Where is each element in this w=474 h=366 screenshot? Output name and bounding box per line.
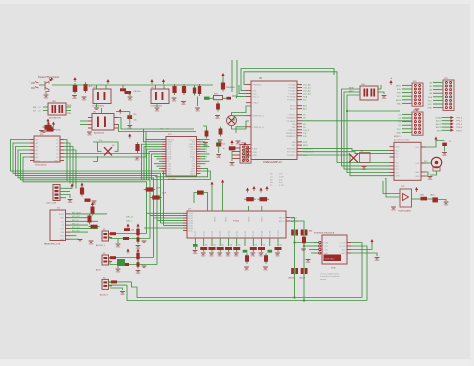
- svg-text:GND: GND: [128, 100, 133, 102]
- svg-text:GND: GND: [234, 256, 239, 258]
- svg-text:PC0/A0: PC0/A0: [289, 84, 297, 87]
- wire: [245, 148, 246, 157]
- svg-text:COM: COM: [324, 243, 329, 245]
- wire: [232, 147, 240, 149]
- crystal Q1: [227, 116, 237, 126]
- capacitor C24: [246, 253, 248, 264]
- wire: [426, 162, 432, 164]
- supply +5V: [231, 142, 233, 145]
- supply +5V arrow: [151, 81, 153, 84]
- ic U7 right pins: [286, 217, 290, 219]
- wire from top: [231, 60, 233, 92]
- svg-text:10k: 10k: [230, 245, 233, 247]
- supply +5V: [211, 184, 213, 187]
- ic IC1 right pins: [60, 139, 64, 141]
- wire: [108, 281, 111, 283]
- svg-text:PB3/MOSI: PB3/MOSI: [286, 133, 296, 135]
- svg-text:GND: GND: [215, 118, 220, 120]
- svg-text:DAC_L: DAC_L: [126, 220, 133, 223]
- wire: [302, 148, 390, 150]
- ground: [428, 177, 433, 178]
- capacitor C4: [45, 129, 56, 131]
- svg-text:ATMEGA328P-AU: ATMEGA328P-AU: [263, 161, 282, 164]
- module U8 right pins: [347, 242, 351, 244]
- resistor R22: [110, 232, 116, 235]
- wire: [108, 233, 147, 235]
- wire: [39, 84, 45, 86]
- wire: [295, 242, 315, 244]
- svg-text:PD6/AIN0: PD6/AIN0: [287, 117, 297, 120]
- wire: [302, 155, 390, 176]
- svg-text:R_OUT: R_OUT: [339, 246, 346, 248]
- svg-text:VDD: VDD: [342, 250, 347, 252]
- svg-text:SCL: SCL: [396, 150, 400, 152]
- wire: [351, 243, 372, 250]
- svg-text:GND: GND: [391, 210, 396, 212]
- mcu U5 left pins: [246, 84, 251, 86]
- wire: [234, 116, 246, 121]
- wire: [378, 92, 384, 94]
- ground: [72, 96, 77, 97]
- svg-text:L_OUT: L_OUT: [339, 243, 346, 245]
- module MOD1 right pins: [421, 146, 426, 148]
- wire: [347, 95, 390, 173]
- svg-text:C10 10u: C10 10u: [133, 91, 141, 93]
- junction: [346, 110, 348, 112]
- svg-text:ADUM1201: ADUM1201: [94, 132, 105, 135]
- pin header JP3: [443, 80, 454, 110]
- svg-text:PWRSTR_B: PWRSTR_B: [253, 116, 265, 118]
- ground: [116, 244, 121, 245]
- wire: [236, 127, 246, 133]
- ground: [236, 141, 241, 142]
- svg-text:10k: 10k: [279, 245, 282, 247]
- wire: [241, 69, 334, 91]
- jumper SJ5: [243, 250, 248, 253]
- ground: [243, 158, 248, 159]
- svg-text:MOSI: MOSI: [349, 87, 354, 89]
- svg-text:AU-OUT_L: AU-OUT_L: [96, 244, 105, 247]
- svg-text:GND3: GND3: [190, 173, 195, 175]
- wire: [344, 92, 390, 169]
- resistor R24: [110, 256, 116, 259]
- resistor R38: [229, 146, 236, 150]
- svg-text:AVL_2: AVL_2: [279, 217, 284, 220]
- svg-text:AU-IN_R: AU-IN_R: [100, 294, 108, 297]
- wire bus L_OUT: [132, 282, 363, 298]
- svg-text:GND: GND: [195, 111, 200, 113]
- svg-text:DCR010505: DCR010505: [93, 106, 105, 108]
- capacitor C22b: [216, 143, 221, 147]
- svg-text:MOSI: MOSI: [396, 100, 402, 102]
- svg-text:10n: 10n: [134, 120, 137, 122]
- svg-text:adaptor: adaptor: [320, 278, 326, 281]
- ground: [195, 108, 200, 109]
- supply +5V: [390, 82, 392, 85]
- wire: [52, 84, 70, 86]
- svg-text:GND: GND: [415, 172, 420, 174]
- capacitor C9: [206, 129, 208, 139]
- ic IC1 left pins: [30, 139, 34, 141]
- ground: [82, 97, 87, 98]
- pin header SV2: [240, 145, 251, 164]
- svg-text:IO4: IO4: [396, 173, 399, 175]
- svg-text:GND: GND: [341, 253, 346, 255]
- svg-text:GND: GND: [244, 270, 249, 272]
- svg-text:VCC: VCC: [428, 104, 433, 106]
- wire: [290, 218, 295, 298]
- wire: [70, 238, 79, 240]
- svg-text:LCD_A3: LCD_A3: [303, 93, 311, 96]
- ground: [155, 108, 160, 109]
- svg-text:MUX: MUX: [437, 130, 442, 132]
- svg-text:GND: GND: [253, 155, 258, 157]
- supply +5V: [71, 186, 73, 189]
- capacitor C31: [137, 142, 139, 153]
- diode pair D4: [301, 230, 304, 236]
- ic U7 left pins: [183, 212, 187, 214]
- svg-text:PT1.4: PT1.4: [457, 127, 463, 129]
- svg-text:GND: GND: [397, 103, 402, 105]
- wire bundle IC1-right: [64, 140, 67, 182]
- svg-text:GND: GND: [428, 179, 433, 181]
- capacitor C28: [137, 251, 139, 262]
- wire: [108, 284, 127, 286]
- wire: [116, 111, 130, 113]
- svg-text:GND: GND: [136, 273, 141, 275]
- supply +5V: [127, 226, 129, 229]
- svg-text:VDD1: VDD1: [225, 216, 227, 222]
- supply +5V: [127, 251, 129, 254]
- resistor R30: [85, 82, 87, 93]
- ground: [42, 131, 47, 132]
- svg-text:A_B7: A_B7: [189, 229, 193, 232]
- svg-text:SOM 4812: SOM 4812: [325, 259, 336, 261]
- ground: [44, 95, 49, 96]
- diode pair D5: [291, 268, 294, 274]
- ground: [444, 202, 449, 203]
- svg-text:10k: 10k: [205, 245, 208, 247]
- wire: [108, 237, 150, 239]
- diode D11: [194, 86, 196, 96]
- resistor R34: [442, 143, 447, 146]
- resistor R35: [421, 197, 428, 201]
- svg-text:GND: GND: [193, 253, 198, 255]
- wire: [244, 72, 390, 163]
- dc-dc converter U4: [151, 89, 169, 104]
- pin header JP2: [412, 83, 423, 106]
- wire bundle IC2-right: [201, 138, 210, 140]
- svg-text:C22: C22: [222, 143, 225, 145]
- wire: [351, 253, 377, 256]
- svg-text:PD7/AIN1: PD7/AIN1: [287, 120, 297, 123]
- wire: [93, 142, 118, 151]
- svg-text:74HC4050D: 74HC4050D: [35, 164, 47, 166]
- header JP2 wires: [402, 84, 412, 86]
- svg-text:PANEL/EPD-CON: PANEL/EPD-CON: [44, 243, 61, 246]
- wire: [204, 193, 208, 212]
- svg-text:1N4148: 1N4148: [299, 278, 305, 280]
- module U8 body: [322, 235, 347, 264]
- wire: [93, 156, 98, 162]
- wire: [155, 85, 157, 89]
- svg-text:GND: GND: [201, 256, 206, 258]
- svg-text:GND: GND: [362, 169, 367, 171]
- wire: [66, 106, 71, 108]
- svg-text:TXD: TXD: [67, 113, 72, 115]
- svg-text:(2): (2): [38, 107, 41, 109]
- audio jack X5: [102, 255, 109, 265]
- capacitor C27: [137, 227, 139, 238]
- wire: [197, 97, 199, 107]
- module MOD1 left pins: [390, 146, 395, 148]
- wire: [222, 184, 224, 211]
- supply +5V arrow: [107, 81, 109, 84]
- svg-text:VDD3: VDD3: [262, 216, 264, 222]
- ic IC2 body: [166, 137, 197, 177]
- svg-text:A_B3: A_B3: [189, 219, 193, 222]
- svg-text:GND: GND: [155, 111, 160, 113]
- capacitor C30: [137, 260, 139, 269]
- svg-text:GND: GND: [209, 256, 214, 258]
- wire: [351, 246, 367, 301]
- svg-text:GND: GND: [415, 176, 420, 178]
- svg-text:SCK: SCK: [303, 142, 308, 144]
- svg-text:PC5/SCL: PC5/SCL: [287, 100, 296, 102]
- svg-text:OUT6: OUT6: [245, 230, 247, 236]
- svg-text:GND: GND: [44, 98, 49, 100]
- supply +5V: [53, 124, 55, 127]
- wire: [222, 78, 224, 82]
- svg-text:FT264: FT264: [233, 221, 240, 223]
- ground: [136, 246, 141, 247]
- wire: [110, 288, 123, 290]
- svg-text:C20: C20: [133, 114, 136, 116]
- svg-text:RX: RX: [33, 107, 37, 109]
- capacitor C18: [197, 191, 204, 195]
- svg-text:EPD_DIN: EPD_DIN: [72, 231, 80, 233]
- supply +5V: [244, 144, 246, 147]
- svg-text:GND: GND: [397, 132, 402, 134]
- resistor R4: [89, 214, 91, 225]
- ground: [127, 126, 132, 127]
- svg-text:LCDA4: LCDA4: [435, 117, 441, 120]
- diode D9: [74, 83, 76, 94]
- svg-text:X5: X5: [103, 253, 105, 255]
- wire: [438, 200, 446, 202]
- wire: [203, 126, 207, 129]
- wire: [232, 106, 252, 116]
- ic U7 body: [187, 211, 286, 238]
- svg-text:ADC2: ADC2: [436, 123, 441, 126]
- svg-text:VCC: VCC: [416, 147, 421, 149]
- wire: [248, 206, 250, 211]
- svg-text:GND: GND: [60, 239, 65, 241]
- wires into U7 left: [147, 212, 184, 214]
- svg-text:10k: 10k: [131, 230, 134, 232]
- svg-text:ADC1: ADC1: [436, 120, 441, 123]
- capacitor C26: [303, 235, 305, 246]
- wire: [232, 121, 250, 129]
- jumper SJ4: [193, 244, 198, 247]
- svg-text:OUT2: OUT2: [212, 230, 214, 236]
- holder: [433, 167, 440, 172]
- ground: [87, 132, 92, 133]
- svg-text:EPD_BUSY: EPD_BUSY: [72, 212, 82, 214]
- varistor R31: [199, 84, 201, 96]
- svg-text:SOM MULT MODULE: SOM MULT MODULE: [314, 233, 335, 235]
- svg-text:X6: X6: [103, 277, 105, 279]
- svg-text:GND: GND: [230, 165, 235, 167]
- svg-text:MISO: MISO: [396, 85, 402, 87]
- wire: [237, 97, 247, 99]
- ferrite FB1: [214, 96, 223, 100]
- svg-text:SDA: SDA: [428, 96, 433, 99]
- svg-text:IO3: IO3: [396, 169, 399, 171]
- svg-text:10k: 10k: [254, 245, 257, 247]
- svg-text:PC2/A2: PC2/A2: [289, 90, 297, 93]
- capacitor C14: [220, 127, 222, 137]
- svg-text:A_B5: A_B5: [189, 224, 193, 227]
- svg-text:0.7W: 0.7W: [279, 185, 284, 187]
- svg-text:(2): (2): [38, 110, 41, 112]
- svg-text:PD2/INT0: PD2/INT0: [287, 155, 297, 157]
- wire: [96, 104, 98, 108]
- wire: [378, 88, 381, 90]
- isolator OK1: [48, 103, 66, 115]
- header JP3 wires: [433, 81, 443, 83]
- svg-text:AU-R: AU-R: [96, 269, 101, 272]
- svg-text:10k: 10k: [263, 245, 266, 247]
- wire from top2: [232, 60, 237, 96]
- svg-text:XTAL2: XTAL2: [253, 102, 260, 105]
- resistor R26: [111, 280, 117, 283]
- svg-text:Connect amplifier 8ohm: Connect amplifier 8ohm: [320, 273, 339, 276]
- svg-text:VCC_2: VCC_2: [253, 97, 260, 99]
- wire bundle IC1-left: [11, 140, 164, 226]
- svg-text:P6KE6V8: P6KE6V8: [226, 87, 236, 89]
- svg-text:ISOLATION: ISOLATION: [49, 117, 61, 120]
- svg-text:LCD+CON: LCD+CON: [46, 203, 56, 205]
- svg-text:10k: 10k: [238, 245, 241, 247]
- svg-text:LED1: LED1: [430, 195, 435, 197]
- resistor R5: [89, 226, 100, 228]
- opamp U11: [400, 189, 412, 207]
- svg-text:VDD0: VDD0: [214, 216, 216, 222]
- svg-text:PD1/TXD: PD1/TXD: [287, 152, 296, 154]
- wire bus R_OUT: [127, 285, 367, 300]
- header JP4 wires: [402, 113, 412, 115]
- svg-text:PD5/T1: PD5/T1: [289, 115, 297, 117]
- svg-text:GND: GND: [375, 260, 380, 262]
- svg-text:SDA: SDA: [303, 96, 308, 99]
- svg-text:Q3: Q3: [112, 145, 114, 147]
- net arrows PT1: [442, 117, 451, 119]
- wire: [46, 92, 49, 95]
- svg-text:1N4148: 1N4148: [288, 278, 294, 280]
- junction: [293, 296, 295, 298]
- svg-text:PD0/RXD: PD0/RXD: [287, 148, 296, 150]
- wire: [60, 187, 72, 190]
- svg-text:PC1/A1: PC1/A1: [289, 87, 297, 90]
- svg-text:GND: GND: [181, 104, 186, 106]
- ground: [136, 271, 141, 272]
- supply +5V: [74, 79, 76, 82]
- svg-text:GND: GND: [243, 161, 248, 163]
- svg-text:GND: GND: [259, 256, 264, 258]
- ground: [39, 131, 44, 132]
- svg-text:OUT4: OUT4: [228, 230, 230, 236]
- wire: [290, 221, 304, 301]
- svg-text:RXD: RXD: [67, 105, 72, 107]
- ic IC2 right pins: [197, 138, 201, 140]
- supply VBUS: [222, 75, 224, 78]
- wire: [427, 198, 432, 200]
- capacitor C8: [183, 84, 185, 95]
- crystal Q3: [104, 147, 112, 155]
- svg-text:GND: GND: [428, 108, 433, 110]
- capacitor C23: [258, 198, 270, 200]
- connector X1 pin 1: [31, 82, 39, 83]
- wire: [309, 249, 314, 251]
- ic U7 bottom pins: [194, 238, 196, 246]
- svg-text:OUT7: OUT7: [253, 230, 255, 236]
- svg-text:D10_B: D10_B: [303, 130, 310, 132]
- svg-text:OUT8: OUT8: [261, 230, 263, 236]
- ground: [230, 163, 235, 164]
- LED D13: [432, 197, 438, 202]
- supply +5V: [416, 189, 418, 192]
- svg-text:MOD 1: MOD 1: [394, 136, 401, 138]
- wire: [43, 106, 48, 108]
- wire: [426, 141, 445, 148]
- capacitor C16: [150, 197, 162, 199]
- resistor R2: [81, 186, 83, 197]
- svg-text:PT1.3: PT1.3: [457, 124, 463, 126]
- svg-text:7.5: 7.5: [449, 141, 452, 143]
- module U8 label block: [324, 255, 342, 262]
- ground: [306, 260, 311, 261]
- capacitor C15: [144, 189, 156, 191]
- ground: [218, 140, 223, 141]
- svg-text:OUT3: OUT3: [220, 230, 222, 236]
- connector X3: [50, 210, 66, 241]
- wire: [302, 152, 390, 154]
- audio jack X4: [102, 231, 109, 241]
- connector LCD1: [53, 185, 60, 201]
- ground: [94, 108, 99, 109]
- ground: [391, 207, 396, 208]
- svg-text:GND: GND: [116, 247, 121, 249]
- wire: [108, 261, 157, 265]
- svg-text:OUT9: OUT9: [270, 230, 272, 236]
- wire: [347, 110, 400, 112]
- svg-text:OUT10: OUT10: [278, 229, 280, 236]
- ground: [215, 116, 220, 117]
- wire U6 top pin: [101, 108, 103, 114]
- svg-text:10k: 10k: [213, 245, 216, 247]
- svg-text:GND: GND: [250, 256, 255, 258]
- svg-text:TDA7052A/N2: TDA7052A/N2: [398, 209, 412, 212]
- wire: [304, 245, 314, 247]
- svg-text:GND: GND: [216, 157, 221, 159]
- svg-text:FT232RL: FT232RL: [168, 179, 177, 181]
- ground: [301, 249, 306, 250]
- svg-text:PB4/MISO: PB4/MISO: [286, 136, 296, 138]
- ic IC1 body: [34, 136, 60, 162]
- svg-text:GND: GND: [168, 173, 173, 175]
- wire: [342, 89, 390, 166]
